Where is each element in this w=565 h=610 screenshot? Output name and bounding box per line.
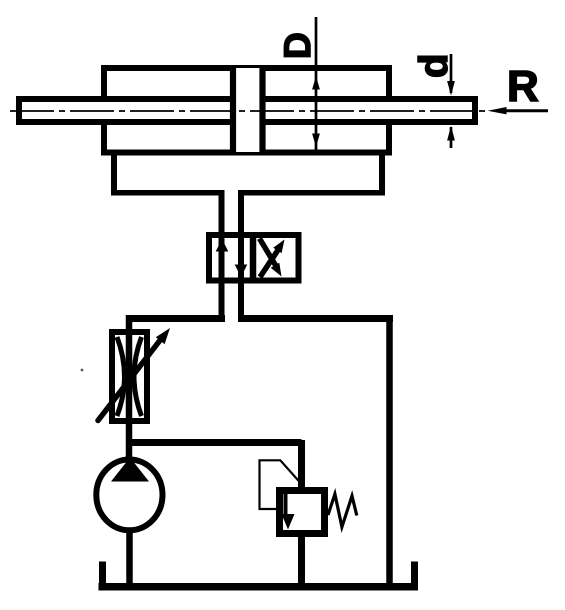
pump suction wire <box>126 530 133 587</box>
dimension D line <box>312 17 320 151</box>
return line right side <box>386 315 393 587</box>
cylinder mount bracket left <box>111 150 225 193</box>
valve left cell down arrowhead <box>235 265 248 278</box>
piston <box>233 66 263 154</box>
wire valve-right to return <box>238 315 393 322</box>
centerline <box>10 110 487 112</box>
throttle adjust arrow <box>98 328 170 421</box>
branch wire to relief valve <box>127 439 302 446</box>
cylinder body <box>104 68 389 153</box>
dimension d line <box>447 54 455 148</box>
valve right cell crossed arrows <box>260 239 285 278</box>
tank <box>99 562 419 587</box>
wire pipe B (right, through valve) <box>238 190 244 322</box>
relief valve inlet wire <box>298 440 305 490</box>
throttle arcs <box>117 337 125 416</box>
relief valve pilot line <box>260 460 302 509</box>
pump P1 <box>96 458 162 531</box>
relief valve outlet wire <box>298 534 305 587</box>
svg-text:d: d <box>412 54 456 78</box>
svg-text:D: D <box>277 32 318 59</box>
relief valve flow arrow <box>282 492 295 530</box>
cylinder mount bracket right <box>238 150 385 193</box>
throttle valve body <box>112 332 147 421</box>
wire pump to throttle to valve line <box>126 315 133 461</box>
valve divider <box>250 232 257 283</box>
wire pipe A (left, through valve) <box>219 190 225 322</box>
relief valve spring <box>328 494 357 527</box>
svg-text:R: R <box>507 62 539 111</box>
valve left cell up arrowhead <box>216 239 229 252</box>
piston rod <box>19 99 475 122</box>
relief valve body <box>280 491 325 534</box>
directional valve 4/2 body <box>209 235 299 281</box>
wire valve-left to throttle <box>126 315 225 322</box>
force R arrow <box>488 107 549 114</box>
speck <box>81 369 84 372</box>
